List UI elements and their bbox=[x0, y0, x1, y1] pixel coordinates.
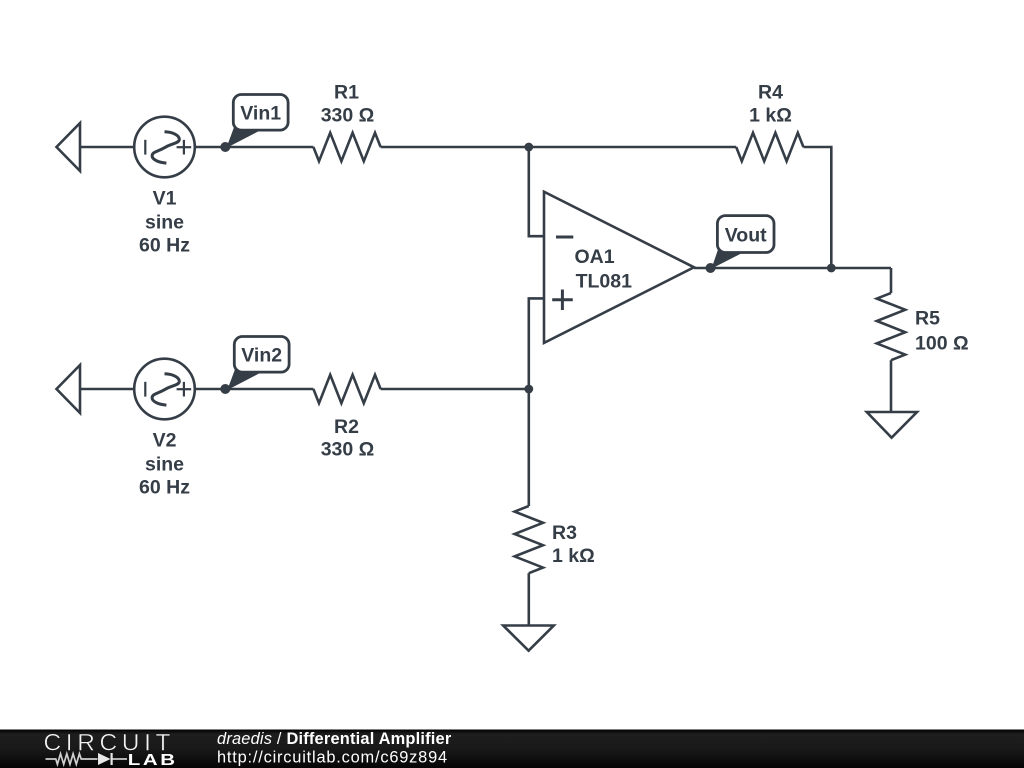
svg-text:R1: R1 bbox=[334, 81, 359, 103]
voltage source V1 bbox=[134, 117, 195, 178]
node junction dot (inverting net) bbox=[524, 143, 533, 152]
svg-text:60 Hz: 60 Hz bbox=[139, 477, 190, 499]
value label R5 100 Ω bbox=[915, 307, 969, 354]
value label R3 1 kΩ bbox=[552, 522, 595, 567]
flag Vout bbox=[712, 216, 775, 269]
ground (below R3) bbox=[503, 626, 554, 651]
wire R4 to output node bbox=[803, 147, 831, 268]
node Vin1 junction dot bbox=[220, 142, 230, 152]
ground (left of V2) bbox=[57, 365, 81, 413]
svg-text:Vout: Vout bbox=[725, 224, 767, 246]
node junction dot (non-inverting net) bbox=[524, 385, 533, 394]
svg-text:draedis / Differential Amplifi: draedis / Differential Amplifier bbox=[217, 730, 452, 748]
svg-text:R5: R5 bbox=[915, 307, 940, 329]
wire R3 to ground bbox=[527, 573, 530, 625]
wire R1 to R4 (top net) bbox=[381, 146, 737, 149]
svg-text:sine: sine bbox=[145, 454, 184, 476]
wire R2 to R3 (non-inverting net) bbox=[381, 388, 529, 391]
voltage source V2 bbox=[134, 359, 195, 420]
wire V2 to R2 bbox=[195, 388, 313, 391]
node junction dot (output to R5) bbox=[827, 264, 836, 273]
wire op-amp output bbox=[694, 267, 891, 270]
value label R4 1 kΩ bbox=[749, 81, 792, 126]
svg-text:330 Ω: 330 Ω bbox=[321, 105, 375, 127]
node Vin2 junction dot bbox=[220, 384, 230, 394]
svg-text:R4: R4 bbox=[758, 81, 783, 103]
svg-text:100 Ω: 100 Ω bbox=[915, 332, 969, 354]
value label R2 330 Ω bbox=[321, 416, 375, 461]
ground (below R5) bbox=[867, 412, 917, 438]
wire R5 to ground bbox=[890, 360, 893, 412]
svg-text:OA1: OA1 bbox=[575, 246, 615, 268]
wire node to R3 bbox=[527, 389, 530, 506]
svg-text:Vin2: Vin2 bbox=[241, 344, 282, 366]
svg-text:V1: V1 bbox=[153, 188, 177, 210]
wire inverting input bbox=[529, 147, 544, 236]
resistor R2 bbox=[313, 375, 380, 403]
wire ground to V1 bbox=[80, 146, 135, 149]
flag Vin2 bbox=[227, 337, 289, 391]
wire output to R5 bbox=[890, 268, 893, 293]
wire ground to V2 bbox=[80, 388, 135, 391]
footer title bbox=[217, 730, 452, 767]
svg-text:330 Ω: 330 Ω bbox=[321, 439, 375, 461]
svg-text:60 Hz: 60 Hz bbox=[139, 235, 190, 257]
CircuitLab logo bbox=[44, 730, 178, 768]
svg-text:sine: sine bbox=[145, 212, 184, 234]
svg-text:R3: R3 bbox=[552, 522, 577, 544]
svg-text:V2: V2 bbox=[153, 430, 177, 452]
svg-text:1 kΩ: 1 kΩ bbox=[749, 105, 792, 127]
resistor R3 bbox=[515, 506, 543, 573]
value label V2 sine 60 Hz bbox=[139, 430, 190, 499]
flag Vin1 bbox=[226, 95, 288, 149]
footer bar bbox=[0, 730, 1024, 768]
svg-text:Vin1: Vin1 bbox=[240, 102, 281, 124]
value label V1 sine 60 Hz bbox=[139, 188, 190, 257]
resistor R1 bbox=[313, 133, 380, 161]
wire V1 to R1 bbox=[195, 146, 313, 149]
ground (left of V1) bbox=[57, 123, 81, 171]
svg-text:http://circuitlab.com/c69z894: http://circuitlab.com/c69z894 bbox=[217, 749, 448, 767]
resistor R5 bbox=[877, 293, 905, 360]
node Vout junction dot bbox=[706, 263, 716, 273]
wire non-inverting input bbox=[529, 298, 544, 389]
svg-text:1 kΩ: 1 kΩ bbox=[552, 545, 595, 567]
resistor R4 bbox=[736, 133, 803, 161]
value label R1 330 Ω bbox=[321, 81, 375, 126]
op-amp OA1 bbox=[544, 192, 694, 343]
svg-text:LAB: LAB bbox=[128, 751, 178, 768]
svg-text:TL081: TL081 bbox=[576, 270, 633, 292]
svg-text:R2: R2 bbox=[334, 416, 359, 438]
